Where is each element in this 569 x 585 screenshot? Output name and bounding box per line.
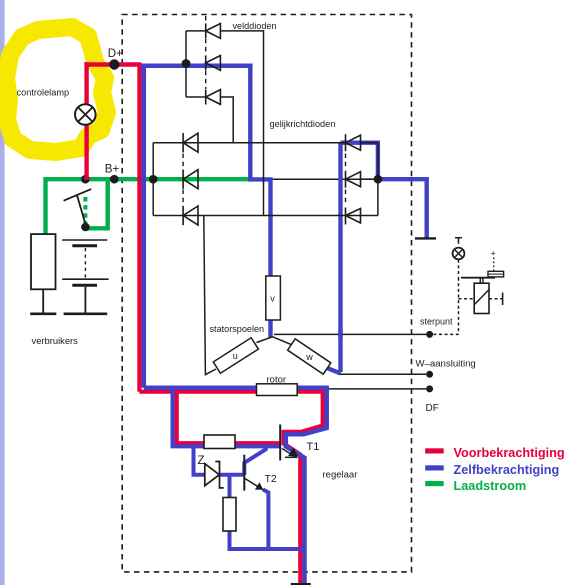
wire: rectifier minus rail (right)	[377, 143, 379, 216]
wire: verbruikers bottom lead	[42, 289, 44, 313]
svg-text:T1: T1	[307, 441, 320, 453]
wire: velddiode1 to phase-u vertical	[220, 31, 263, 216]
svg-text:Voorbekrachtiging: Voorbekrachtiging	[454, 446, 565, 460]
lamp H2 cross	[78, 107, 93, 122]
dashed wire relay to terminal tick	[489, 298, 503, 300]
legend swatch green	[425, 481, 444, 486]
diode D7 (minus diode row1)	[346, 134, 378, 151]
wire: phase-u sloped line from row3 to coil u	[204, 216, 216, 375]
svg-text:w: w	[305, 352, 313, 362]
wire: blue phase-v drop from field diode 2	[248, 66, 271, 338]
battery G1 cell 2 short plate	[72, 284, 97, 287]
ground bar B- at bottom	[291, 583, 311, 585]
resistor R2	[223, 498, 236, 532]
wire: blue phase-w riser and rectifier minus path to ground	[326, 143, 427, 374]
warning lamp cross	[455, 250, 462, 257]
ground bar for rectifier minus (outside box)	[415, 237, 436, 239]
lamp H2 controlelamp circle	[75, 104, 96, 125]
diode D2 (velddiode middle)	[206, 55, 221, 70]
svg-text:v: v	[270, 294, 275, 304]
terminal dot DF	[426, 385, 433, 392]
wire: DF line	[329, 388, 426, 390]
wire: blue along T2 base + collector to T1 base line	[244, 446, 265, 475]
svg-text:DF: DF	[426, 403, 439, 414]
svg-text:Laadstroom: Laadstroom	[454, 479, 527, 493]
transistor T1 emitter arrow	[282, 448, 298, 458]
dashed wire lamp to relay armature	[458, 260, 460, 278]
svg-text:B+: B+	[105, 164, 120, 176]
wire: row1 phase-w line	[153, 142, 345, 144]
switch S actuator cross line	[64, 189, 92, 201]
resistor R1	[204, 435, 235, 449]
wire: blue R2 bottom to emitter rail	[230, 531, 307, 550]
terminal dot W	[426, 371, 433, 378]
diode D3 (velddiode bottom)	[206, 90, 221, 105]
node: minus rail junction	[374, 175, 383, 184]
transistor T2 emitter line with arrow	[245, 479, 264, 491]
wire: blue branch down to resistor row	[173, 388, 281, 447]
wire: velddiode3 to phase-w vertical	[220, 97, 233, 143]
svg-text:statorspoelen: statorspoelen	[210, 324, 265, 334]
diode D8 (minus diode row2)	[346, 171, 378, 188]
wire: red branch down to resistor row	[177, 392, 281, 444]
relay armature plate	[461, 277, 495, 279]
battery G1 cell 1 long plate	[62, 239, 107, 241]
battery G1 cell 2 long plate	[62, 278, 108, 280]
wire: row2 phase-v black line under green/blue	[153, 178, 378, 180]
wire: star point to sterpunt terminal	[274, 333, 426, 335]
stator coil u box	[213, 338, 258, 373]
diode D9 (minus diode row3)	[346, 208, 361, 225]
wire: blue main left vertical + lower run to rotor and T1	[144, 67, 327, 585]
relay armature pivot legs	[480, 278, 483, 283]
wire: red lamp wire lower segment to green node	[84, 125, 88, 181]
svg-text:W–aansluiting: W–aansluiting	[416, 359, 476, 370]
svg-text:velddioden: velddioden	[233, 21, 277, 31]
highlighter ring around controlelamp	[6, 27, 107, 152]
wire: row3 phase-u line	[153, 215, 378, 217]
svg-text:D+: D+	[108, 48, 123, 60]
wire: red lamp wire upper segment	[84, 62, 88, 104]
wire: velddioden cathode rail	[186, 31, 206, 97]
dotted wire + to contact	[493, 258, 495, 271]
svg-text:u: u	[233, 351, 238, 361]
wire: green branch B+ node down to battery top	[85, 179, 114, 228]
wire: blue branch to zener	[194, 446, 206, 475]
dashed enclosure border of alternator	[122, 15, 411, 572]
legend swatch blue	[425, 465, 444, 470]
svg-text:rotor: rotor	[267, 375, 287, 386]
node: D+ junction dot	[109, 59, 119, 69]
node: plus rail to B+ line	[149, 175, 158, 184]
ground bar under battery	[64, 312, 108, 315]
node: B+ terminal dot	[110, 175, 119, 184]
wire: green dashed segment through ignition switch	[83, 197, 87, 225]
svg-text:verbruikers: verbruikers	[32, 335, 79, 346]
dash link through left rectifier cathodes	[182, 154, 184, 206]
svg-text:sterpunt: sterpunt	[420, 317, 453, 327]
battery G1 dashed middle (more cells)	[84, 248, 86, 278]
wire: red main vertical + lower run to rotor and T1	[139, 65, 322, 585]
wire: W-aansluiting line	[340, 373, 426, 375]
svg-text:regelaar: regelaar	[323, 470, 358, 481]
terminal tick above warning lamp	[455, 238, 462, 244]
node: junction of lamp wire and green line	[81, 175, 90, 184]
diode D5 (plus diode row2)	[183, 170, 198, 189]
node: switch lower junction dot	[81, 223, 90, 232]
wire: green B+ charge-current line	[46, 179, 250, 234]
svg-text:gelijkrichtdioden: gelijkrichtdioden	[270, 119, 336, 129]
left page-edge lavender strip	[0, 0, 5, 585]
diode D1 (velddiode top)	[206, 23, 221, 38]
wire: blue T2 emitter drop	[263, 490, 268, 550]
wire: blue phase-w overlay at sterpunt crossing	[338, 330, 342, 339]
dashed wire sterpunt riser to relay	[433, 278, 474, 335]
dash link through velddioden cathodes	[205, 16, 207, 89]
verbruikers load box	[31, 234, 56, 289]
svg-text:T2: T2	[265, 473, 277, 485]
stator coil w box	[288, 339, 331, 374]
wire: blue zener to T2 base	[220, 473, 245, 477]
relay coil box with diagonal	[474, 283, 489, 313]
terminal tick right of relay	[502, 293, 504, 306]
dash link through right rectifier cathodes	[345, 154, 347, 206]
terminal dot sterpunt	[426, 331, 433, 338]
diode D4 (plus diode row1)	[183, 133, 198, 152]
zener diode Z	[205, 462, 224, 488]
legend swatch red	[425, 448, 444, 453]
switch S (ignition) lever	[77, 194, 87, 227]
wire: blue D+ horizontal (self-excitation)	[141, 64, 253, 69]
stator coil v box	[266, 276, 281, 320]
wire: rectifier plus rail (left)	[152, 143, 154, 216]
relay fixed contact block	[488, 271, 504, 277]
svg-text:Zelfbekrachtiging: Zelfbekrachtiging	[454, 463, 560, 477]
transistor T2 base bar	[243, 455, 245, 491]
svg-text:controlelamp: controlelamp	[17, 88, 70, 98]
wire: star point legs to u and w coils	[257, 337, 292, 345]
ground bar under verbruikers	[30, 312, 56, 315]
wire: red pre-excitation D+ horizontal	[84, 62, 141, 66]
battery G1 cell 1 short plate	[72, 244, 97, 247]
transistor T1 base bar	[279, 425, 281, 461]
wire: battery minus lead	[84, 287, 86, 314]
svg-text:+: +	[491, 249, 496, 259]
svg-text:Z: Z	[198, 455, 205, 467]
node: D+ node on velddioden rail	[182, 59, 191, 68]
wire: blue branch down to R2	[228, 475, 232, 499]
diode D6 (plus diode row3)	[183, 206, 198, 225]
warning lamp (dashboard) circle	[453, 248, 465, 260]
rotor winding box	[257, 384, 298, 396]
